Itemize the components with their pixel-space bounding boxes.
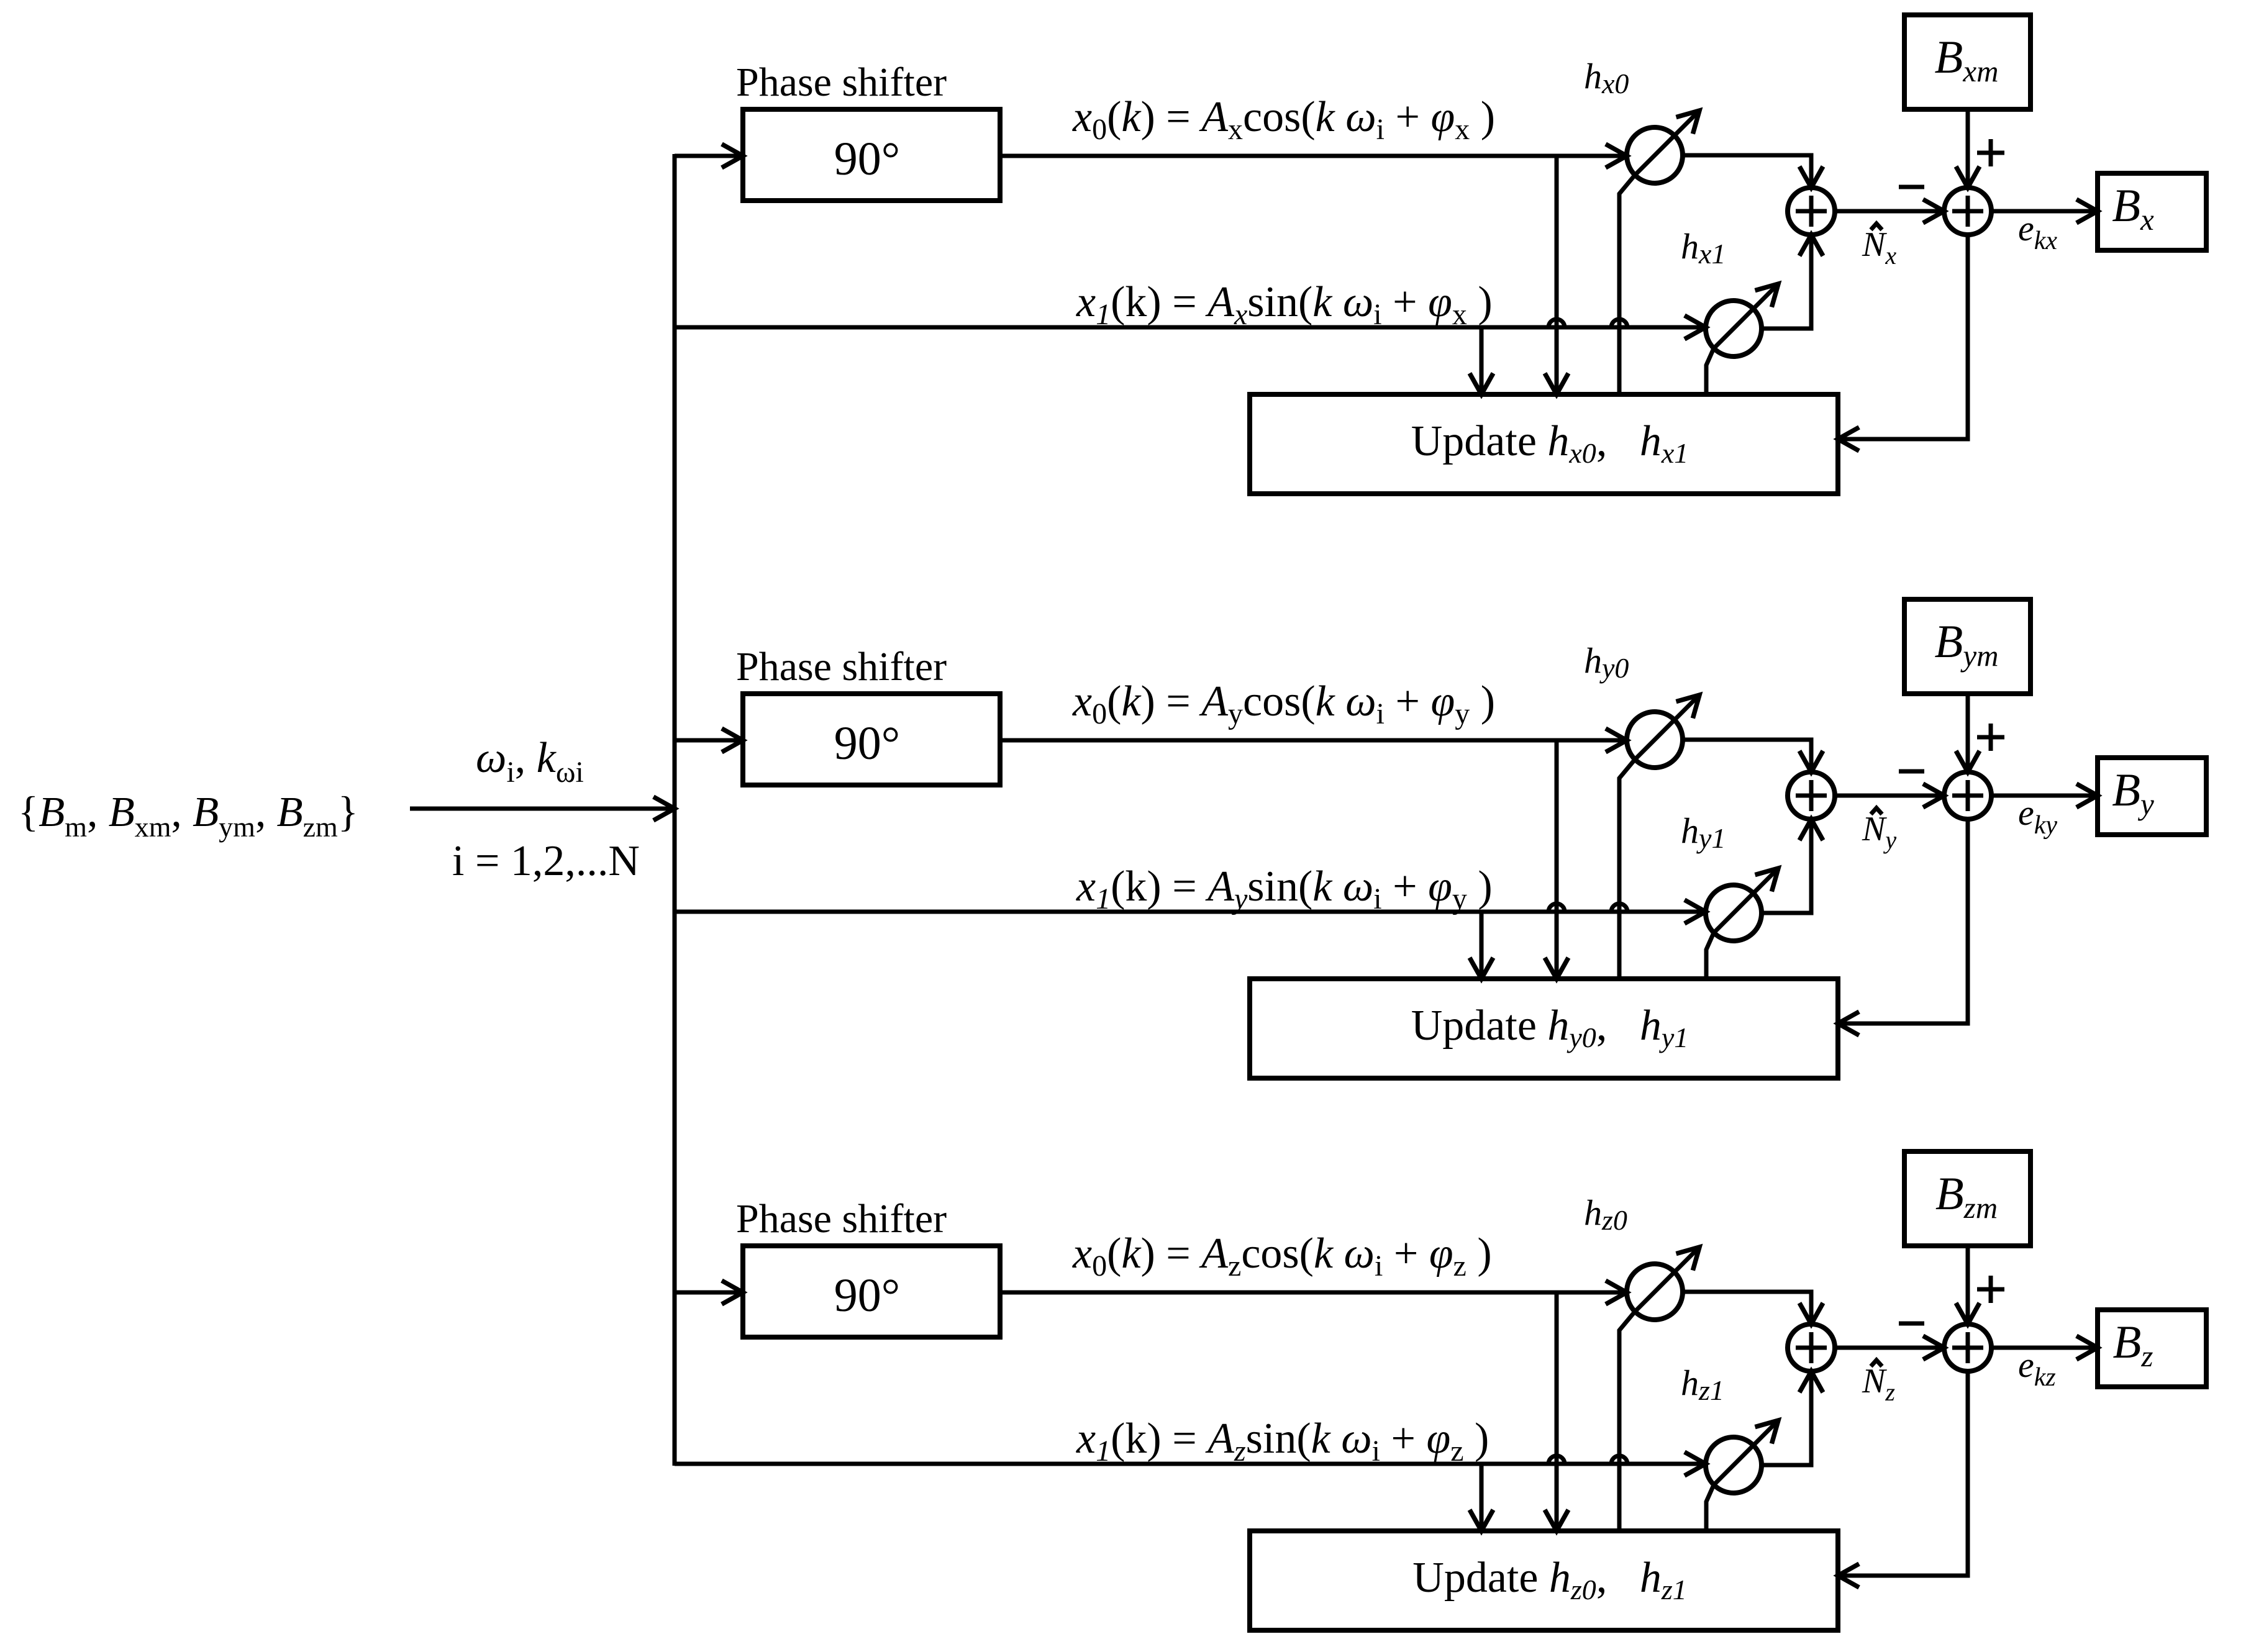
bus wire bbox=[673, 154, 677, 1466]
svg-text:i = 1,2,...N: i = 1,2,...N bbox=[452, 837, 640, 885]
section x graphics bbox=[675, 15, 2206, 494]
svg-text:x1​(k) = Ax​sin(k ωi​ + φx​ ): x1​(k) = Ax​sin(k ωi​ + φx​ ) bbox=[1076, 278, 1493, 331]
svg-text:Phase shifter: Phase shifter bbox=[736, 1196, 947, 1241]
svg-text:x1​(k) = Az​sin(k ωi​ + φz​ ): x1​(k) = Az​sin(k ωi​ + φz​ ) bbox=[1076, 1415, 1489, 1468]
input arrow bbox=[410, 807, 675, 811]
svg-text:90°: 90° bbox=[834, 1269, 900, 1322]
svg-text:x1​(k) = Ay​sin(k ωi​ + φy​ ): x1​(k) = Ay​sin(k ωi​ + φy​ ) bbox=[1076, 863, 1493, 915]
svg-text:x0​(k) = Az​cos(k ωi​ + φz​ ): x0​(k) = Az​cos(k ωi​ + φz​ ) bbox=[1072, 1230, 1492, 1282]
svg-text:Phase shifter: Phase shifter bbox=[736, 644, 947, 689]
section z graphics bbox=[675, 1151, 2206, 1630]
svg-text:Update hy0​, hy1​: Update hy0​, hy1​ bbox=[1411, 1002, 1688, 1053]
svg-text:Update hz0​, hz1​: Update hz0​, hz1​ bbox=[1412, 1554, 1686, 1605]
svg-text:90°: 90° bbox=[834, 133, 900, 185]
svg-text:Phase shifter: Phase shifter bbox=[736, 60, 947, 105]
section y graphics bbox=[675, 599, 2206, 1078]
svg-text:Update hx0​, hx1​: Update hx0​, hx1​ bbox=[1411, 417, 1688, 469]
svg-text:90°: 90° bbox=[834, 717, 900, 769]
svg-text:x0​(k) = Ay​cos(k ωi​ + φy​ ): x0​(k) = Ay​cos(k ωi​ + φy​ ) bbox=[1072, 678, 1495, 730]
svg-text:x0​(k) = Ax​cos(k ωi​ + φx​ ): x0​(k) = Ax​cos(k ωi​ + φx​ ) bbox=[1072, 93, 1495, 146]
